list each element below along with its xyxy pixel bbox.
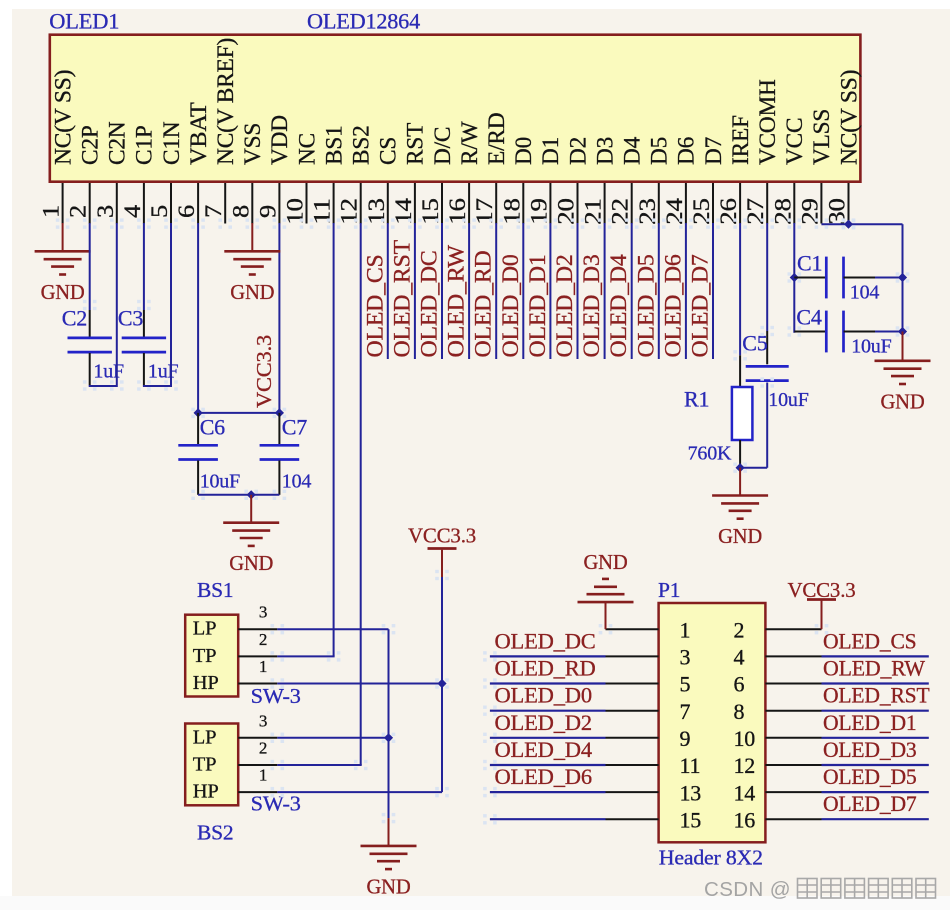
svg-text:BS2: BS2 bbox=[349, 125, 374, 165]
wire pin21 net stub bbox=[604, 223, 606, 359]
ground GND B (pin8) bbox=[224, 250, 280, 253]
svg-text:SW-3: SW-3 bbox=[251, 684, 301, 708]
pin 18 (D0) stub bbox=[522, 183, 524, 224]
wire net OLED_RD (P1 pin 5) bbox=[490, 682, 606, 684]
svg-text:15: 15 bbox=[680, 807, 702, 832]
wire C6-C7 bottoms bbox=[198, 494, 279, 496]
svg-text:OLED_RST: OLED_RST bbox=[823, 683, 930, 708]
wire to GND E bbox=[250, 495, 252, 522]
wire net OLED_D0 (P1 pin 7) bbox=[490, 710, 606, 712]
svg-text:8: 8 bbox=[734, 699, 745, 724]
capacitor C3 top lead bbox=[143, 310, 145, 337]
wire pin17 net stub bbox=[495, 223, 497, 359]
wire net OLED_RST (P1 pin 8) bbox=[822, 710, 929, 712]
wire net OLED_D6 (P1 pin 13) bbox=[490, 791, 606, 793]
svg-text:20: 20 bbox=[554, 198, 579, 225]
svg-text:1: 1 bbox=[259, 657, 267, 676]
svg-text:5: 5 bbox=[680, 672, 691, 697]
capacitor C4 right lead bbox=[844, 331, 875, 333]
svg-text:104: 104 bbox=[282, 470, 312, 492]
pin 21 (D3) stub bbox=[604, 183, 606, 224]
pin 30 (NC(V SS)) stub bbox=[848, 183, 850, 224]
svg-text:23: 23 bbox=[635, 198, 660, 225]
svg-text:GND: GND bbox=[718, 524, 762, 548]
svg-text:D6: D6 bbox=[674, 137, 699, 165]
wire pin27 (VCOMH) down bbox=[766, 223, 768, 331]
svg-text:SW-3: SW-3 bbox=[251, 792, 301, 816]
svg-text:7: 7 bbox=[201, 205, 226, 218]
svg-text:26: 26 bbox=[716, 198, 741, 225]
capacitor C5 bbox=[746, 365, 789, 368]
wire pin6 (VBAT) down bbox=[197, 223, 199, 413]
svg-text:C1N: C1N bbox=[159, 121, 184, 165]
svg-text:OLED_RD: OLED_RD bbox=[471, 251, 496, 358]
BS2 pin 1 stub bbox=[238, 791, 277, 793]
svg-text:C6: C6 bbox=[200, 415, 225, 440]
P1 pin 9 stub bbox=[606, 737, 659, 739]
svg-text:VBAT: VBAT bbox=[186, 102, 211, 165]
svg-text:104: 104 bbox=[850, 282, 880, 304]
pin 29 (VLSS) stub bbox=[820, 183, 822, 224]
wire pin11 (BS1) down bbox=[333, 223, 335, 656]
junction (VCC rail / C1) bbox=[790, 273, 799, 282]
svg-text:C2N: C2N bbox=[105, 121, 130, 165]
wire BS2.3 to gnd column bbox=[277, 737, 388, 739]
svg-text:VCC3.3: VCC3.3 bbox=[252, 335, 276, 408]
svg-text:TP: TP bbox=[193, 645, 217, 667]
wire BS1.3 to gnd column bbox=[277, 628, 388, 630]
svg-text:VLSS: VLSS bbox=[809, 109, 834, 165]
svg-text:VCC: VCC bbox=[782, 118, 807, 165]
P1 pin 8 stub bbox=[765, 710, 821, 712]
svg-text:VCOMH: VCOMH bbox=[755, 79, 780, 165]
svg-text:RST: RST bbox=[403, 123, 428, 165]
svg-text:OLED_D0: OLED_D0 bbox=[498, 254, 523, 357]
svg-text:R1: R1 bbox=[684, 386, 709, 411]
junction (pin30) bbox=[844, 220, 853, 229]
grid artifacts (decorative) bbox=[56, 218, 910, 824]
wire pin19 net stub bbox=[549, 223, 551, 359]
svg-text:CS: CS bbox=[376, 137, 401, 165]
wire C2 bottom to pin3 bbox=[89, 385, 117, 387]
junction (gnd column / BS2.3) bbox=[384, 733, 393, 742]
svg-text:9: 9 bbox=[680, 726, 691, 751]
svg-text:OLED_RD: OLED_RD bbox=[495, 656, 596, 681]
P1 pin 4 stub bbox=[765, 655, 821, 657]
capacitor C1 right lead bbox=[844, 277, 875, 279]
ground GND A (pin1) bbox=[35, 250, 91, 253]
svg-text:10uF: 10uF bbox=[200, 470, 240, 492]
svg-text:OLED_RW: OLED_RW bbox=[444, 245, 469, 358]
wire net OLED_D3 (P1 pin 12) bbox=[822, 764, 929, 766]
wire BS1.1 to VCC rail bbox=[277, 683, 442, 685]
capacitor C2 bbox=[68, 337, 112, 340]
wire pin18 net stub bbox=[522, 223, 524, 359]
wire C5 bottom to R1 bottom bbox=[740, 467, 767, 469]
svg-text:OLED_D7: OLED_D7 bbox=[688, 254, 713, 357]
svg-text:VDD: VDD bbox=[267, 115, 292, 165]
ground GND G (P1 pin1, inverted) bbox=[578, 601, 634, 604]
svg-text:6: 6 bbox=[174, 205, 199, 218]
wire pin16 net stub bbox=[468, 223, 470, 359]
svg-text:10uF: 10uF bbox=[768, 389, 808, 411]
wire pin5 down bbox=[170, 223, 172, 387]
svg-text:OLED_D2: OLED_D2 bbox=[495, 710, 592, 735]
ground GND F (switches) bbox=[361, 845, 417, 848]
svg-text:10: 10 bbox=[283, 198, 308, 225]
svg-text:BS1: BS1 bbox=[321, 125, 346, 165]
svg-text:D/C: D/C bbox=[430, 127, 455, 165]
svg-text:2: 2 bbox=[66, 205, 91, 218]
svg-text:14: 14 bbox=[734, 780, 756, 805]
wire net OLED_D2 (P1 pin 9) bbox=[490, 737, 606, 739]
svg-text:24: 24 bbox=[662, 197, 687, 224]
capacitor C6 bottom lead bbox=[197, 461, 199, 495]
pin 15 (D/C) stub bbox=[441, 183, 443, 224]
capacitor C7 bottom lead bbox=[278, 461, 280, 495]
svg-text:OLED_D5: OLED_D5 bbox=[823, 764, 917, 789]
pin 8 (VSS) stub bbox=[251, 183, 253, 224]
P1 pin 13 stub bbox=[606, 791, 659, 793]
wire gnd column down bbox=[388, 629, 390, 818]
header P1 body bbox=[659, 603, 766, 842]
svg-text:VCC3.3: VCC3.3 bbox=[788, 578, 856, 602]
wire GND G stem bbox=[605, 602, 607, 629]
wire BS2.1 to VCC rail bbox=[277, 791, 442, 793]
svg-text:TP: TP bbox=[193, 754, 217, 776]
P1 pin 15 stub bbox=[606, 818, 659, 820]
IC OLED1 body (OLED12864) bbox=[50, 35, 861, 182]
switch BS2 body bbox=[185, 724, 238, 806]
svg-text:8: 8 bbox=[228, 205, 253, 218]
pin 13 (CS) stub bbox=[387, 183, 389, 224]
wire P1 pin15 stub net bbox=[490, 818, 606, 820]
BS2 pin 3 stub bbox=[238, 737, 277, 739]
wire BS2.2 to pin12 column bbox=[277, 764, 361, 766]
svg-text:15: 15 bbox=[418, 198, 443, 225]
svg-text:OLED_D7: OLED_D7 bbox=[823, 791, 917, 816]
svg-text:12: 12 bbox=[337, 198, 362, 225]
junction (rail right / C7) bbox=[275, 408, 284, 417]
svg-text:NC(V SS): NC(V SS) bbox=[836, 70, 861, 165]
pin 2 (C2P) stub bbox=[89, 183, 91, 224]
svg-text:16: 16 bbox=[734, 807, 756, 832]
svg-text:C1: C1 bbox=[797, 250, 822, 275]
svg-text:VCC3.3: VCC3.3 bbox=[408, 523, 476, 547]
svg-text:1: 1 bbox=[680, 617, 691, 642]
svg-text:7: 7 bbox=[680, 699, 691, 724]
svg-text:2: 2 bbox=[259, 630, 267, 649]
svg-text:3: 3 bbox=[259, 603, 267, 622]
resistor R1 bbox=[732, 387, 753, 440]
wire C4 right to rail bbox=[875, 331, 903, 333]
svg-text:6: 6 bbox=[734, 672, 745, 697]
BS1 pin 2 stub bbox=[238, 655, 277, 657]
junction (C6/C7 ground tap) bbox=[247, 490, 256, 499]
P1 pin 5 stub bbox=[606, 683, 659, 685]
wire pin15 net stub bbox=[441, 223, 443, 359]
resistor R1 bottom lead bbox=[739, 440, 741, 468]
wire pin8 (VSS) to GND bbox=[251, 223, 253, 251]
svg-text:28: 28 bbox=[770, 198, 795, 225]
svg-text:2: 2 bbox=[734, 617, 745, 642]
svg-text:BS2: BS2 bbox=[197, 821, 233, 845]
svg-text:GND: GND bbox=[584, 550, 628, 574]
pin 26 (IREF) stub bbox=[739, 183, 741, 224]
svg-text:1uF: 1uF bbox=[148, 361, 179, 383]
wire pin29 (VLSS) to pin30 rail bbox=[821, 223, 902, 225]
svg-text:OLED_D6: OLED_D6 bbox=[495, 764, 592, 789]
pin 11 (BS1) stub bbox=[333, 183, 335, 224]
svg-text:OLED_DC: OLED_DC bbox=[417, 251, 442, 358]
pin 4 (C1P) stub bbox=[143, 183, 145, 224]
wire net OLED_RW (P1 pin 6) bbox=[822, 682, 929, 684]
svg-text:D2: D2 bbox=[565, 137, 590, 165]
svg-text:VSS: VSS bbox=[240, 123, 265, 165]
svg-text:OLED_CS: OLED_CS bbox=[823, 628, 917, 653]
svg-text:C7: C7 bbox=[282, 415, 307, 440]
wire pin12 (BS2) down bbox=[360, 223, 362, 765]
wire pin26 (IREF) down bbox=[739, 223, 741, 355]
wire pin23 net stub bbox=[658, 223, 660, 359]
P1 pin 12 stub bbox=[765, 764, 821, 766]
svg-text:D5: D5 bbox=[647, 137, 672, 165]
capacitor C6 top lead bbox=[197, 413, 199, 444]
svg-text:OLED_D1: OLED_D1 bbox=[525, 254, 550, 357]
svg-text:11: 11 bbox=[310, 198, 335, 225]
pin 17 (E/RD) stub bbox=[495, 183, 497, 224]
wire pin14 net stub bbox=[414, 223, 416, 359]
wire to GND C bbox=[739, 468, 741, 495]
svg-text:10uF: 10uF bbox=[851, 336, 891, 358]
wire pin28 (VCC) down bbox=[793, 223, 795, 333]
capacitor C2 bottom lead bbox=[89, 353, 91, 385]
wire BS1.2 to pin11 column bbox=[277, 655, 334, 657]
svg-text:GND: GND bbox=[881, 389, 925, 413]
wire VCC stem bbox=[441, 550, 443, 577]
svg-text:OLED_D1: OLED_D1 bbox=[823, 710, 917, 735]
svg-text:16: 16 bbox=[445, 198, 470, 225]
svg-text:OLED_D3: OLED_D3 bbox=[823, 737, 917, 762]
capacitor C4 bbox=[825, 311, 828, 353]
capacitor C3 bottom lead bbox=[143, 353, 145, 385]
svg-text:D7: D7 bbox=[701, 137, 726, 165]
svg-text:3: 3 bbox=[680, 645, 691, 670]
svg-text:OLED_D0: OLED_D0 bbox=[495, 683, 592, 708]
svg-text:D1: D1 bbox=[538, 137, 563, 165]
wire right rail down bbox=[902, 224, 904, 331]
pin 5 (C1N) stub bbox=[170, 183, 172, 224]
wire rail to GND D bbox=[902, 332, 904, 361]
svg-text:30: 30 bbox=[825, 198, 850, 225]
svg-text:GND: GND bbox=[229, 551, 273, 575]
wire VCC stem (P1) bbox=[821, 600, 823, 630]
svg-text:27: 27 bbox=[743, 198, 768, 225]
svg-text:CSDN @: CSDN @ bbox=[704, 878, 791, 901]
capacitor C7 top lead bbox=[278, 413, 280, 444]
pin 25 (D7) stub bbox=[712, 183, 714, 224]
junction (VCC rail / BS1.1) bbox=[437, 679, 446, 688]
wire pin20 net stub bbox=[577, 223, 579, 359]
svg-text:9: 9 bbox=[255, 205, 280, 218]
svg-text:OLED_D3: OLED_D3 bbox=[579, 254, 604, 357]
pin 14 (RST) stub bbox=[414, 183, 416, 224]
svg-text:E/RD: E/RD bbox=[484, 113, 509, 165]
power VCC3.3 (switch rail) bbox=[428, 547, 457, 550]
wire pin9 (VDD) down bbox=[278, 223, 280, 413]
svg-text:13: 13 bbox=[364, 198, 389, 225]
svg-text:1: 1 bbox=[39, 205, 64, 218]
capacitor C4 left lead bbox=[794, 331, 826, 333]
capacitor C6 bbox=[178, 444, 218, 447]
svg-text:R/W: R/W bbox=[457, 121, 482, 165]
pin 3 (C2N) stub bbox=[116, 183, 118, 224]
BS1 pin 1 stub bbox=[238, 683, 277, 685]
BS1 pin 3 stub bbox=[238, 628, 277, 630]
capacitor C1 bbox=[825, 257, 828, 299]
pin 16 (R/W) stub bbox=[468, 183, 470, 224]
wire net OLED_D1 (P1 pin 10) bbox=[822, 737, 929, 739]
wire pin2 to C2 top bbox=[89, 223, 91, 310]
wire gnd column to GND F bbox=[388, 818, 390, 845]
pin 24 (D6) stub bbox=[685, 183, 687, 224]
svg-text:GND: GND bbox=[230, 280, 274, 304]
svg-text:OLED_D4: OLED_D4 bbox=[606, 254, 631, 358]
svg-text:HP: HP bbox=[193, 672, 219, 694]
svg-text:11: 11 bbox=[680, 753, 701, 778]
junction (rail / C4 right) bbox=[898, 327, 907, 336]
svg-text:4: 4 bbox=[734, 645, 745, 670]
svg-text:OLED_RST: OLED_RST bbox=[389, 240, 414, 358]
svg-text:29: 29 bbox=[797, 198, 822, 225]
svg-text:NC(V BREF): NC(V BREF) bbox=[213, 38, 238, 165]
wire net OLED_CS (P1 pin 4) bbox=[822, 655, 929, 657]
svg-text:14: 14 bbox=[391, 197, 416, 224]
svg-text:OLED_D5: OLED_D5 bbox=[633, 254, 658, 357]
resistor R1 top lead bbox=[739, 355, 741, 387]
svg-text:2: 2 bbox=[259, 739, 267, 758]
pin 20 (D2) stub bbox=[577, 183, 579, 224]
svg-text:IREF: IREF bbox=[728, 115, 753, 165]
pin 1 (NC(V SS)) stub bbox=[62, 183, 64, 224]
P1 pin 11 stub bbox=[606, 764, 659, 766]
P1 pin 1 stub bbox=[606, 628, 659, 630]
wire VCC rail down to BS2.1 bbox=[441, 577, 443, 792]
wire net OLED_DC (P1 pin 3) bbox=[490, 655, 606, 657]
watermark chinese characters (stylized) bbox=[798, 879, 936, 899]
bottom light strip bbox=[0, 896, 950, 910]
power VCC3.3 (P1 pin2) bbox=[807, 598, 836, 601]
svg-text:OLED_D6: OLED_D6 bbox=[660, 254, 685, 357]
svg-text:Header 8X2: Header 8X2 bbox=[659, 846, 763, 870]
svg-text:GND: GND bbox=[41, 280, 85, 304]
P1 pin 16 stub bbox=[765, 818, 821, 820]
wire net OLED_D4 (P1 pin 11) bbox=[490, 764, 606, 766]
capacitor C3 bbox=[122, 337, 166, 340]
wire pin1 to GND bbox=[62, 223, 64, 251]
svg-text:18: 18 bbox=[499, 198, 524, 225]
capacitor C2 top lead bbox=[89, 310, 91, 337]
pin 10 (NC) stub bbox=[306, 183, 308, 224]
wire pin25 net stub bbox=[712, 223, 714, 359]
junction (R1/C5 ground tap) bbox=[736, 463, 745, 472]
P1 pin 3 stub bbox=[606, 655, 659, 657]
svg-text:19: 19 bbox=[526, 198, 551, 225]
P1 pin 2 stub bbox=[765, 628, 821, 630]
svg-text:D0: D0 bbox=[511, 137, 536, 165]
svg-text:1uF: 1uF bbox=[93, 361, 124, 383]
ground GND C (R1/C5) bbox=[712, 494, 768, 497]
pin 28 (VCC) stub bbox=[793, 183, 795, 224]
svg-text:3: 3 bbox=[259, 711, 267, 730]
pin 7 (NC(V BREF)) stub bbox=[224, 183, 226, 224]
svg-text:1: 1 bbox=[259, 766, 267, 785]
wire rail VBAT-VDD bbox=[198, 412, 279, 414]
svg-text:LP: LP bbox=[193, 726, 217, 748]
wire pin13 net stub bbox=[387, 223, 389, 359]
capacitor C5 top lead bbox=[766, 331, 768, 364]
pin 12 (BS2) stub bbox=[360, 183, 362, 224]
svg-text:C4: C4 bbox=[796, 304, 821, 329]
svg-text:13: 13 bbox=[680, 780, 702, 805]
svg-text:C1P: C1P bbox=[132, 125, 157, 165]
BS2 pin 2 stub bbox=[238, 764, 277, 766]
svg-text:4: 4 bbox=[120, 204, 145, 218]
svg-text:3: 3 bbox=[93, 205, 118, 218]
svg-text:25: 25 bbox=[689, 198, 714, 225]
svg-text:760K: 760K bbox=[688, 442, 732, 464]
svg-text:OLED1: OLED1 bbox=[49, 8, 119, 33]
svg-text:OLED_RW: OLED_RW bbox=[823, 656, 925, 681]
svg-text:D4: D4 bbox=[620, 136, 645, 165]
ground GND D (right rail) bbox=[875, 359, 931, 362]
svg-text:OLED_DC: OLED_DC bbox=[495, 628, 596, 653]
wire pin24 net stub bbox=[685, 223, 687, 359]
switch BS1 body bbox=[185, 615, 238, 697]
svg-text:NC: NC bbox=[294, 133, 319, 165]
svg-text:21: 21 bbox=[581, 198, 606, 225]
svg-text:10: 10 bbox=[734, 726, 756, 751]
wire C5 bottom down bbox=[766, 383, 768, 468]
pin 6 (VBAT) stub bbox=[197, 183, 199, 224]
ground GND E (C6/C7) bbox=[223, 521, 279, 524]
svg-text:LP: LP bbox=[193, 618, 217, 640]
P1 pin 6 stub bbox=[765, 683, 821, 685]
junction (rail / C1 right) bbox=[898, 273, 907, 282]
wire net OLED_D7 (P1 pin 16) bbox=[822, 818, 929, 820]
capacitor C1 left lead bbox=[794, 277, 826, 279]
svg-text:OLED12864: OLED12864 bbox=[307, 8, 420, 33]
P1 pin 14 stub bbox=[765, 791, 821, 793]
wire C1 right to rail bbox=[875, 277, 903, 279]
svg-text:17: 17 bbox=[472, 198, 497, 225]
svg-text:OLED_D4: OLED_D4 bbox=[495, 737, 592, 762]
junction (rail left / C6) bbox=[194, 408, 203, 417]
P1 pin 7 stub bbox=[606, 710, 659, 712]
pin 22 (D4) stub bbox=[631, 183, 633, 224]
wire pin3 down bbox=[116, 223, 118, 387]
svg-text:OLED_CS: OLED_CS bbox=[362, 254, 387, 357]
svg-text:P1: P1 bbox=[658, 578, 680, 602]
wire pin22 net stub bbox=[631, 223, 633, 359]
svg-text:OLED_D2: OLED_D2 bbox=[552, 254, 577, 357]
svg-text:GND: GND bbox=[367, 874, 411, 898]
pin 27 (VCOMH) stub bbox=[766, 183, 768, 224]
svg-text:D3: D3 bbox=[592, 137, 617, 165]
svg-text:NC(V SS): NC(V SS) bbox=[50, 70, 75, 165]
svg-text:BS1: BS1 bbox=[197, 578, 233, 602]
svg-text:22: 22 bbox=[608, 198, 633, 225]
